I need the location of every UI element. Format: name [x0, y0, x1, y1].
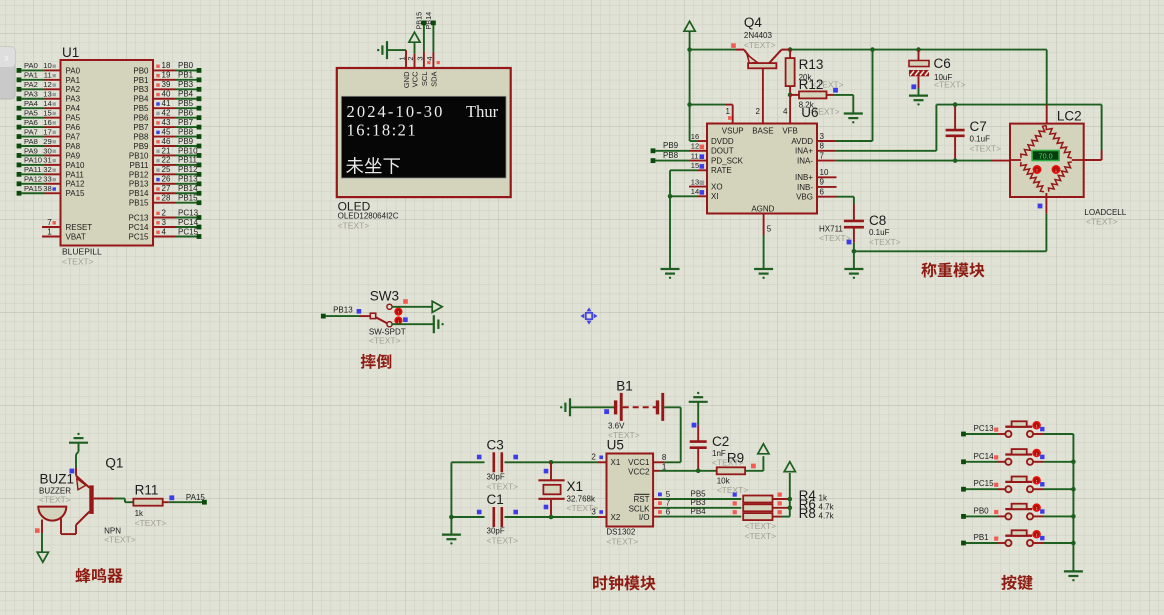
svg-text:VCC2: VCC2	[628, 468, 650, 477]
svg-text:2N4403: 2N4403	[744, 31, 773, 40]
svg-text:3: 3	[591, 507, 596, 516]
svg-text:29: 29	[43, 137, 51, 146]
svg-text:3: 3	[415, 57, 424, 61]
svg-text:↕: ↕	[1035, 506, 1038, 512]
U1 pin 11 PA1 wire and terminal	[17, 71, 81, 85]
svg-text:<TEXT>: <TEXT>	[745, 521, 777, 531]
svg-text:PB7: PB7	[178, 118, 194, 127]
ground C2 top	[689, 392, 708, 425]
wire U5 RST pin 5 to R4	[653, 489, 741, 499]
svg-text:PB14: PB14	[178, 184, 198, 193]
svg-text:PB8: PB8	[178, 127, 194, 136]
U1 pin 13 PA3 wire and terminal	[17, 90, 81, 104]
U1 pin 12 PA2 wire and terminal	[17, 80, 81, 94]
power arrow pullups	[784, 462, 795, 472]
wire C3 to U5 X1 pin 2	[505, 453, 607, 465]
OLED pin 3 SCL wire	[415, 25, 430, 68]
svg-text:12: 12	[43, 80, 51, 89]
ground SW3	[434, 315, 444, 333]
svg-text:5: 5	[666, 490, 671, 499]
svg-text:16: 16	[43, 118, 51, 127]
power arrow VSUP	[684, 21, 695, 49]
svg-text:PA5: PA5	[24, 108, 38, 117]
svg-text:30pF: 30pF	[487, 473, 505, 482]
svg-text:4: 4	[162, 227, 167, 236]
wire Q1 base to R11	[94, 499, 134, 503]
wire U6 pin 14 XI	[668, 187, 707, 199]
svg-text:PB4: PB4	[178, 90, 194, 99]
OLED power arrow VCC	[409, 32, 420, 54]
svg-text:PC15: PC15	[974, 479, 995, 488]
U1 pin 46 PB9 wire and terminal	[133, 137, 201, 151]
svg-text:PB7: PB7	[133, 123, 149, 132]
svg-text:U6: U6	[801, 105, 818, 120]
wire U5 VCC2 to R9	[653, 470, 717, 472]
IC U5 DS1302 body	[607, 454, 654, 527]
svg-text:8: 8	[820, 142, 825, 151]
wire SW3 top throw to power arrow	[392, 306, 432, 308]
svg-text:INA-: INA-	[797, 157, 813, 166]
svg-text:<TEXT>: <TEXT>	[1086, 217, 1118, 227]
node PB9 terminal and wire to U6 pin 12 DOUT	[651, 141, 707, 153]
svg-text:<TEXT>: <TEXT>	[104, 535, 136, 545]
svg-text:11: 11	[44, 71, 52, 80]
ground buttons	[1064, 571, 1083, 581]
capacitor C2 1nF	[690, 423, 744, 473]
resistor R6 4.7k	[743, 497, 834, 512]
svg-text:PB15: PB15	[178, 194, 198, 203]
svg-text:AGND: AGND	[751, 205, 774, 214]
svg-text:BLUEPILL: BLUEPILL	[62, 247, 102, 257]
svg-text:4.7k: 4.7k	[819, 503, 835, 512]
svg-text:INA+: INA+	[795, 147, 813, 156]
svg-text:38: 38	[43, 184, 51, 193]
svg-text:30pF: 30pF	[487, 527, 505, 536]
push button PB1	[961, 530, 1073, 546]
U1 pin 40 PB4 wire and terminal	[133, 90, 201, 104]
svg-text:PB0: PB0	[133, 66, 149, 75]
svg-text:22: 22	[162, 156, 171, 165]
resistor R8 4.7k	[743, 506, 834, 521]
U5 value labels	[606, 528, 638, 547]
svg-text:14: 14	[43, 99, 51, 108]
svg-text:PC13: PC13	[178, 208, 199, 217]
U1 pin 27 PB14 wire and terminal	[129, 184, 201, 198]
resistor R4 1k	[743, 488, 828, 503]
OLED pin 1 GND wire	[398, 50, 407, 68]
svg-text:PC14: PC14	[128, 223, 149, 232]
svg-text:28: 28	[162, 194, 171, 203]
svg-text:PA9: PA9	[66, 151, 81, 160]
svg-text:PB0: PB0	[974, 506, 990, 515]
node VFB junction	[783, 93, 792, 124]
U1 pin 7 RESET	[42, 218, 92, 232]
svg-text:PB10: PB10	[129, 151, 149, 160]
svg-text:↕: ↕	[1035, 479, 1038, 485]
svg-text:1: 1	[726, 107, 731, 116]
svg-text:PA3: PA3	[24, 90, 38, 99]
capacitor C6 10uF	[909, 50, 966, 96]
svg-text:VBAT: VBAT	[66, 232, 86, 241]
svg-text:16:18:21: 16:18:21	[347, 121, 418, 140]
capacitor C7 0.1uF	[946, 102, 1002, 163]
svg-text:PA7: PA7	[66, 132, 81, 141]
wire C3 left	[451, 461, 484, 463]
ground U6 RATE/XI	[661, 269, 680, 279]
svg-text:BASE: BASE	[752, 127, 773, 136]
U1 pin 33 PA12 wire and terminal	[17, 175, 85, 189]
resistor R12 8.2k	[790, 77, 853, 110]
wire buzzer to Q1 emitter	[61, 525, 76, 534]
svg-text:18: 18	[162, 61, 171, 70]
svg-text:R13: R13	[799, 57, 824, 72]
svg-text:AVDD: AVDD	[791, 137, 813, 146]
U1 pin 29 PA8 wire and terminal	[17, 137, 81, 151]
wire Q4 base to U6 BASE pin 2	[756, 68, 763, 123]
svg-text:PA0: PA0	[66, 66, 81, 75]
module title buttons	[1001, 575, 1032, 590]
svg-text:3: 3	[820, 132, 825, 141]
svg-text:LOADCELL: LOADCELL	[1084, 208, 1126, 217]
U1 pin 25 PB12 wire and terminal	[129, 165, 201, 179]
wire VSUP down	[687, 50, 732, 141]
svg-text:U5: U5	[607, 438, 624, 453]
svg-text:13: 13	[43, 90, 51, 99]
U1 pin 15 PA5 wire and terminal	[17, 108, 81, 122]
svg-text:I/O: I/O	[639, 513, 650, 522]
wire U6 pin 7 INA- to loadcell	[817, 151, 1010, 160]
SW3 label	[370, 289, 399, 304]
svg-text:4: 4	[783, 107, 788, 116]
svg-text:VBG: VBG	[796, 193, 813, 202]
svg-text:10: 10	[43, 61, 51, 70]
svg-text:OLED128064I2C: OLED128064I2C	[338, 212, 399, 221]
svg-text:70.0: 70.0	[1039, 151, 1053, 160]
resistor R13 20k	[786, 50, 824, 95]
svg-text:Q4: Q4	[744, 15, 763, 30]
U1 pin 30 PA9 wire and terminal	[17, 146, 81, 160]
svg-text:VFB: VFB	[782, 127, 798, 136]
U1 pin 41 PB5 wire and terminal	[133, 99, 201, 113]
svg-text:1k: 1k	[819, 494, 828, 503]
svg-text:PA9: PA9	[24, 146, 38, 155]
svg-text:16: 16	[691, 132, 699, 141]
U6 pin 10 INB+ stub	[817, 168, 837, 177]
svg-text:PB4: PB4	[691, 507, 707, 516]
svg-text:PB9: PB9	[178, 137, 194, 146]
ground C8	[844, 269, 863, 279]
svg-text:PA4: PA4	[24, 99, 38, 108]
svg-text:SCL: SCL	[420, 72, 429, 87]
svg-text:2: 2	[591, 453, 596, 462]
svg-text:26: 26	[162, 175, 171, 184]
load cell LC2 body	[1010, 124, 1084, 197]
svg-text:45: 45	[162, 127, 171, 136]
svg-text:DVDD: DVDD	[711, 137, 734, 146]
svg-text:PC13: PC13	[128, 213, 149, 222]
svg-text:XI: XI	[711, 192, 719, 201]
svg-text:RATE: RATE	[711, 166, 732, 175]
ground buzzer top	[69, 433, 88, 452]
svg-text:7: 7	[666, 499, 671, 508]
svg-text:3: 3	[162, 218, 167, 227]
svg-text:42: 42	[162, 108, 171, 117]
svg-text:PA8: PA8	[24, 137, 38, 146]
crystal X1 32.768k	[538, 462, 598, 517]
node PB8 terminal and wire to U6 pin 11 PD_SCK	[651, 151, 707, 163]
microcontroller U1 BLUEPILL body	[61, 60, 154, 246]
battery B1 3.6V	[608, 393, 664, 440]
wire PB13 to switch pole	[359, 315, 370, 317]
wire buzzer left lead down	[35, 528, 42, 552]
svg-text:PB3: PB3	[133, 85, 149, 94]
svg-text:PB3: PB3	[691, 498, 707, 507]
buzzer BUZ1 labels	[39, 472, 74, 505]
svg-text:<TEXT>: <TEXT>	[744, 40, 776, 50]
B1 label	[616, 379, 633, 394]
resistor R9 10k	[717, 451, 764, 496]
U1 pin 1 VBAT	[42, 227, 86, 241]
svg-text:PA1: PA1	[24, 71, 38, 80]
module title buzzer	[75, 568, 122, 583]
U5 label	[607, 438, 624, 453]
svg-text:PA8: PA8	[66, 142, 81, 151]
U1 pin 28 PB15 wire and terminal	[129, 194, 201, 208]
power arrow SW3	[432, 301, 442, 312]
svg-text:43: 43	[162, 118, 171, 127]
svg-text:C8: C8	[869, 213, 886, 228]
svg-text:X1: X1	[611, 458, 621, 467]
svg-text:<TEXT>: <TEXT>	[717, 485, 749, 495]
svg-text:15: 15	[43, 108, 51, 117]
svg-text:PA2: PA2	[24, 80, 38, 89]
svg-text:↕: ↕	[1035, 451, 1038, 457]
wire C1 to U5 X2 pin 3	[505, 507, 607, 519]
svg-text:PD_SCK: PD_SCK	[711, 157, 744, 166]
svg-text:1: 1	[47, 227, 52, 236]
svg-text:PB14: PB14	[129, 189, 149, 198]
wire button bus to ground	[1071, 434, 1076, 571]
svg-text:4: 4	[425, 57, 434, 61]
U1 pin 14 PA4 wire and terminal	[17, 99, 81, 113]
wire buzzer collector	[70, 452, 79, 476]
U1 pin 43 PB7 wire and terminal	[133, 118, 201, 132]
svg-text:17: 17	[43, 127, 51, 136]
svg-text:↑: ↑	[1036, 168, 1039, 174]
svg-text:0.1uF: 0.1uF	[970, 135, 991, 144]
U1 pin 22 PB11 wire and terminal	[130, 156, 202, 170]
svg-text:40: 40	[162, 90, 171, 99]
svg-text:31: 31	[43, 156, 51, 165]
svg-text:PB6: PB6	[178, 108, 194, 117]
svg-text:<TEXT>: <TEXT>	[135, 518, 167, 528]
svg-text:PB4: PB4	[133, 95, 149, 104]
wire LC2 top to rail	[1046, 50, 1048, 124]
svg-text:C3: C3	[487, 438, 504, 453]
svg-text:BUZ1: BUZ1	[40, 472, 75, 487]
wire U6 pin 15 RATE to ground	[670, 161, 707, 269]
svg-text:<TEXT>: <TEXT>	[39, 495, 71, 505]
wire C1 left	[449, 462, 484, 519]
module title fall	[361, 354, 392, 369]
svg-text:HX711: HX711	[819, 224, 843, 233]
node PA15 terminal	[186, 493, 207, 505]
U1 pin 21 PB10 wire and terminal	[129, 146, 201, 160]
svg-text:Thur: Thur	[466, 102, 499, 121]
svg-text:<TEXT>: <TEXT>	[606, 537, 638, 547]
svg-text:6: 6	[666, 507, 671, 516]
push button PC15	[961, 477, 1073, 493]
U1 pin 2 PC13 wire and terminal	[128, 208, 201, 222]
svg-text:PB12: PB12	[178, 165, 198, 174]
svg-text:5: 5	[767, 225, 772, 234]
transistor Q4 2N4403	[735, 50, 790, 69]
OLED ground symbol	[377, 41, 406, 59]
svg-text:PA5: PA5	[66, 114, 81, 123]
Q1 NPN value labels	[104, 527, 136, 545]
svg-text:PB13: PB13	[129, 180, 149, 189]
svg-text:PB13: PB13	[178, 175, 198, 184]
svg-text:PB9: PB9	[663, 141, 679, 150]
svg-text:PB11: PB11	[178, 156, 198, 165]
wire LC2 bottom	[1038, 193, 1047, 251]
ground clock	[442, 517, 461, 545]
svg-text:7: 7	[47, 218, 52, 227]
svg-text:PB15: PB15	[415, 12, 424, 30]
svg-text:27: 27	[162, 184, 171, 193]
U1 pin 31 PA10 wire and terminal	[17, 156, 85, 170]
svg-text:PB10: PB10	[178, 146, 198, 155]
wire battery to U5 VCC1	[653, 407, 681, 462]
svg-text:<TEXT>: <TEXT>	[369, 336, 401, 346]
transistor Q4 labels	[731, 15, 775, 50]
LOADCELL labels	[1084, 208, 1126, 227]
svg-text:R12: R12	[799, 77, 824, 92]
svg-text:10: 10	[820, 168, 829, 177]
svg-text:PB13: PB13	[333, 305, 353, 314]
svg-text:LC2: LC2	[1057, 109, 1082, 124]
ground C6	[909, 96, 928, 106]
svg-text:C2: C2	[712, 434, 729, 449]
svg-text:VSUP: VSUP	[722, 127, 744, 136]
U1 pin 17 PA7 wire and terminal	[17, 127, 81, 141]
U1 pin 38 PA15 wire and terminal	[17, 184, 85, 198]
svg-text:PA4: PA4	[66, 104, 81, 113]
OLED pin 4 SDA wire	[425, 25, 440, 68]
U6 pin 16 DVDD number	[691, 132, 699, 141]
svg-text:PB14: PB14	[424, 12, 433, 30]
svg-text:PA0: PA0	[24, 61, 38, 70]
svg-text:33: 33	[43, 175, 51, 184]
U6 pin 9 INB- stub	[817, 178, 837, 187]
svg-text:SW3: SW3	[370, 289, 399, 304]
OLED screen	[341, 96, 506, 178]
svg-text:XO: XO	[711, 183, 723, 192]
svg-text:PB12: PB12	[129, 170, 149, 179]
svg-text:2024-10-30: 2024-10-30	[347, 102, 445, 121]
svg-text:RESET: RESET	[66, 223, 93, 232]
svg-text:INB-: INB-	[797, 183, 813, 192]
svg-text:PB15: PB15	[129, 199, 149, 208]
svg-text:C1: C1	[487, 492, 504, 507]
wire U5 SCLK pin 7 to R6	[653, 498, 741, 508]
svg-text:PA1: PA1	[66, 76, 81, 85]
svg-text:INB+: INB+	[795, 173, 813, 182]
U1 pin 42 PB6 wire and terminal	[133, 108, 201, 122]
svg-text:PA15: PA15	[66, 189, 86, 198]
svg-text:PA11: PA11	[66, 170, 85, 179]
svg-text:PA3: PA3	[66, 95, 81, 104]
module title weighing	[921, 262, 984, 277]
wire SW3 bottom throw to ground	[392, 323, 433, 325]
U1 pin 19 PB1 wire and terminal	[133, 71, 201, 85]
svg-text:↓: ↓	[1055, 168, 1058, 174]
svg-text:8: 8	[662, 453, 667, 462]
svg-text:X1: X1	[567, 479, 584, 494]
svg-text:15: 15	[691, 161, 699, 170]
svg-text:↕: ↕	[1035, 533, 1038, 539]
svg-text:<TEXT>: <TEXT>	[338, 221, 370, 231]
node PB14 terminal	[424, 12, 436, 30]
svg-text:46: 46	[162, 137, 171, 146]
node VBG junction	[852, 249, 1047, 254]
svg-text:4.7k: 4.7k	[819, 512, 835, 521]
U6 label	[801, 105, 839, 120]
wire U6 pin 3 AVDD to rail	[817, 50, 873, 141]
svg-text:U1: U1	[62, 45, 79, 60]
svg-text:30: 30	[43, 146, 51, 155]
svg-text:PA10: PA10	[66, 161, 86, 170]
svg-text:DS1302: DS1302	[606, 528, 635, 537]
svg-text:25: 25	[162, 165, 171, 174]
svg-text:41: 41	[162, 99, 171, 108]
svg-text:PB1: PB1	[974, 533, 990, 542]
svg-text:<TEXT>: <TEXT>	[869, 237, 901, 247]
svg-text:1: 1	[662, 462, 667, 471]
svg-text:0.1uF: 0.1uF	[869, 228, 890, 237]
svg-text:VCC: VCC	[411, 71, 420, 87]
svg-text:<TEXT>: <TEXT>	[970, 144, 1002, 154]
IC U6 HX711 body	[707, 124, 817, 214]
svg-text:7: 7	[820, 151, 825, 160]
origin marker	[580, 307, 597, 324]
svg-text:2: 2	[162, 208, 167, 217]
svg-text:PA15: PA15	[24, 184, 42, 193]
wire R4 R6 R8 to power arrow	[788, 473, 793, 517]
OLED pin 2 VCC wire	[406, 54, 415, 68]
transistor Q1 label	[105, 456, 123, 471]
svg-text:PB8: PB8	[663, 151, 679, 160]
svg-text:PB6: PB6	[133, 114, 149, 123]
svg-text:PB8: PB8	[133, 132, 149, 141]
svg-text:x: x	[4, 53, 9, 63]
node PB13 terminal	[321, 305, 361, 318]
U1 pin 32 PA11 wire and terminal	[17, 165, 85, 179]
svg-text:19: 19	[162, 71, 171, 80]
wire top rail	[687, 47, 1046, 52]
svg-text:PB5: PB5	[691, 489, 707, 498]
U1 pin 45 PB8 wire and terminal	[133, 127, 201, 141]
svg-text:PB0: PB0	[178, 61, 194, 70]
svg-text:R8: R8	[799, 506, 816, 521]
U6 pin 13 XO stub	[689, 177, 707, 186]
wire U6 pin 8 INA+ to loadcell	[817, 105, 1102, 160]
ground AGND	[754, 269, 773, 279]
display OLED body	[337, 68, 511, 197]
svg-text:PC14: PC14	[178, 218, 199, 227]
svg-text:11: 11	[691, 151, 699, 160]
svg-text:SDA: SDA	[429, 72, 438, 87]
